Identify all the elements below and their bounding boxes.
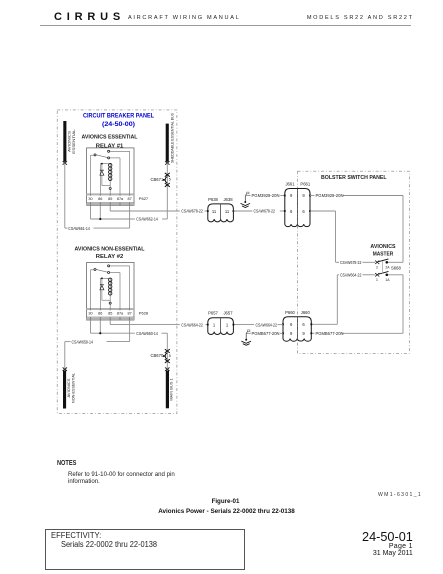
svg-text:P661: P661 — [300, 182, 310, 187]
svg-text:5: 5 — [169, 178, 171, 182]
svg-text:9: 9 — [302, 193, 305, 198]
svg-text:J638: J638 — [223, 197, 233, 202]
svg-text:CIRCUIT BREAKER PANEL: CIRCUIT BREAKER PANEL — [83, 114, 154, 120]
svg-text:J661: J661 — [285, 182, 295, 187]
svg-text:6: 6 — [290, 322, 293, 327]
svg-text:5: 5 — [169, 354, 171, 358]
svg-text:P628: P628 — [139, 310, 149, 315]
svg-text:CSAW664-22: CSAW664-22 — [181, 322, 203, 327]
svg-text:RELAY #2: RELAY #2 — [96, 254, 124, 260]
svg-text:9: 9 — [290, 331, 293, 336]
svg-text:CSAW659-14: CSAW659-14 — [72, 339, 94, 344]
svg-text:P660: P660 — [285, 310, 295, 315]
svg-text:AVIONICS NON-ESSENTIAL: AVIONICS NON-ESSENTIAL — [75, 246, 145, 252]
svg-text:AVIONICS ESSENTIAL: AVIONICS ESSENTIAL — [82, 134, 138, 140]
svg-text:J660: J660 — [301, 310, 311, 315]
svg-text:CSAW662-14: CSAW662-14 — [136, 217, 158, 222]
svg-text:CB671: CB671 — [150, 177, 163, 182]
svg-text:PGMB677-20N: PGMB677-20N — [252, 331, 280, 336]
svg-text:PGM3929-20N: PGM3929-20N — [316, 193, 344, 198]
svg-text:1: 1 — [226, 322, 229, 327]
svg-text:CSAW660-14: CSAW660-14 — [136, 331, 158, 336]
svg-text:J657: J657 — [223, 311, 233, 316]
svg-text:1A: 1A — [385, 278, 390, 282]
svg-text:CSAW664-22: CSAW664-22 — [256, 322, 278, 327]
svg-text:1: 1 — [213, 322, 216, 327]
svg-text:(24-50-00): (24-50-00) — [102, 122, 135, 128]
svg-text:9: 9 — [290, 193, 293, 198]
svg-text:6: 6 — [290, 209, 293, 214]
svg-text:6: 6 — [302, 322, 305, 327]
svg-text:CSAW678-22: CSAW678-22 — [181, 209, 203, 214]
svg-text:BOLSTER SWITCH PANEL: BOLSTER SWITCH PANEL — [321, 175, 387, 181]
svg-text:ESSENTIAL: ESSENTIAL — [71, 128, 76, 153]
svg-text:PGMB677-20N: PGMB677-20N — [316, 331, 344, 336]
svg-text:MAIN BUS 1: MAIN BUS 1 — [169, 377, 174, 400]
svg-text:11: 11 — [212, 209, 217, 214]
svg-text:CSAW664-22: CSAW664-22 — [340, 273, 362, 278]
svg-text:2: 2 — [376, 265, 378, 269]
svg-text:2A: 2A — [385, 266, 390, 270]
svg-text:P638: P638 — [208, 197, 218, 202]
svg-text:AVIONICS: AVIONICS — [370, 244, 396, 250]
svg-text:9: 9 — [302, 331, 305, 336]
svg-text:CSAW661-14: CSAW661-14 — [68, 226, 90, 231]
svg-text:11: 11 — [225, 209, 230, 214]
svg-text:CB670: CB670 — [150, 353, 163, 358]
svg-text:PGM3929-20N: PGM3929-20N — [252, 193, 280, 198]
svg-text:P657: P657 — [208, 311, 218, 316]
svg-text:1: 1 — [376, 278, 378, 282]
svg-text:S668: S668 — [391, 266, 401, 271]
svg-text:6: 6 — [302, 209, 305, 214]
svg-text:P627: P627 — [139, 196, 149, 201]
svg-text:NON-ESSENTIAL: NON-ESSENTIAL — [71, 372, 76, 403]
svg-text:MASTER: MASTER — [373, 252, 394, 258]
svg-text:CSAW678-22: CSAW678-22 — [340, 260, 362, 265]
svg-text:RELAY #1: RELAY #1 — [96, 143, 124, 149]
svg-text:SHEDDABLE ESSENTIAL BUS: SHEDDABLE ESSENTIAL BUS — [170, 113, 175, 163]
svg-text:CSAW678-22: CSAW678-22 — [254, 209, 276, 214]
